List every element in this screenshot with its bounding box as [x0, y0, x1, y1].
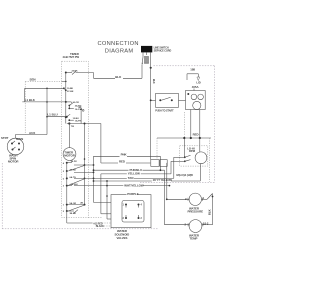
svg-text:MOTOR: MOTOR: [64, 153, 75, 157]
wire: bus to motor contact: [183, 138, 185, 157]
wire: bus right drop: [209, 138, 211, 182]
water temp switch circle: [165, 220, 213, 241]
timer contact PNK: [63, 161, 77, 188]
svg-text:VALVES: VALVES: [117, 236, 128, 240]
timer motor: [63, 124, 76, 161]
right wire stack: WHT/YELLOW: [74, 183, 170, 187]
wire: aux drop: [46, 88, 48, 134]
svg-text:WHT/YELLOW: WHT/YELLOW: [124, 183, 144, 187]
wash motor AUX wire: [16, 131, 48, 139]
svg-text:24-BK: 24-BK: [72, 69, 79, 72]
svg-text:M(LO)4 (HI)5: M(LO)4 (HI)5: [176, 173, 193, 177]
wire L1 BLK: [22, 98, 67, 103]
wire L1 BLU: [46, 112, 68, 117]
timer contact bus: [65, 73, 67, 124]
timer inner vertical: [84, 124, 86, 205]
wire: cord drop to push-to-start: [150, 68, 152, 160]
svg-text:BK: BK: [79, 107, 83, 109]
right wire stack: RED: [101, 159, 167, 199]
timer contact row4: [66, 183, 78, 187]
svg-text:1B-PK: 1B-PK: [71, 161, 78, 163]
cabinet dashed frame right: [214, 66, 216, 183]
svg-text:MAIN: MAIN: [16, 137, 23, 141]
wire: motor bottom return: [199, 164, 201, 181]
bus y138: [157, 133, 211, 139]
svg-text:12-BU: 12-BU: [73, 118, 80, 120]
node at push-to-start tap: [150, 99, 152, 101]
right wire stack: PNK: [94, 153, 161, 171]
wire: pressure sw to frame: [188, 194, 213, 225]
switch blade diagonals: [68, 164, 85, 185]
svg-text:RED: RED: [193, 133, 199, 137]
svg-text:PRESSURE: PRESSURE: [188, 210, 204, 214]
svg-text:SERVICE CORD: SERVICE CORD: [154, 50, 172, 53]
svg-text:MOTOR: MOTOR: [8, 160, 19, 164]
pressure switch circle: [166, 193, 205, 214]
svg-text:405A: 405A: [192, 85, 200, 89]
drive motor dashed box: [176, 146, 207, 177]
fuse 188 / 405A feed: [187, 68, 201, 91]
wire BLK from timer to line switch: [76, 73, 142, 79]
svg-text:PUSH TO START: PUSH TO START: [155, 110, 174, 113]
svg-text:3B-BK: 3B-BK: [70, 213, 77, 215]
svg-text:DIAGRAM: DIAGRAM: [105, 48, 134, 54]
svg-text:RED: RED: [119, 159, 125, 163]
wire: timer bottom exit: [67, 211, 111, 225]
svg-text:TAN: TAN: [128, 176, 134, 180]
svg-text:AUX: AUX: [29, 131, 35, 135]
push to start switch box: [151, 94, 186, 113]
timer lower exits: [74, 164, 94, 173]
cabinet dashed frame left: [1, 163, 3, 229]
wire: switch to BLK line: [141, 65, 143, 79]
node: cord neutral junction: [150, 55, 152, 69]
timer contact row2: [66, 170, 77, 173]
valve feed wires: [94, 174, 112, 219]
svg-text:1A-PK: 1A-PK: [75, 120, 82, 123]
svg-text:188: 188: [190, 68, 195, 72]
cabinet dashed frame bottom right: [140, 181, 215, 183]
svg-text:#8 YT YELLOW: #8 YT YELLOW: [153, 178, 173, 182]
wire upper-left loop: [25, 87, 74, 102]
svg-text:TEMP: TEMP: [190, 237, 198, 241]
svg-text:2C-BK: 2C-BK: [67, 91, 74, 93]
lid switch under connector: [142, 55, 149, 65]
svg-text:LID: LID: [196, 81, 200, 85]
svg-text:2B: 2B: [80, 202, 83, 204]
timer motor junction: [67, 122, 101, 127]
right wire stack: YELLOW: [101, 161, 185, 175]
svg-text:STRT: STRT: [1, 136, 9, 140]
left bus x93.5: [93, 156, 95, 202]
svg-text:BLK: BLK: [152, 79, 154, 84]
wire: y124 drop to PNK: [100, 124, 102, 164]
cabinet dashed frame top: [154, 65, 215, 67]
timer lower bus: [66, 163, 68, 211]
timer dashed box: [62, 61, 89, 217]
right wire stack: TAN: [74, 157, 185, 180]
wire: dashed drop left of relay: [183, 112, 185, 138]
svg-text:L1 BLK: L1 BLK: [25, 98, 36, 102]
svg-text:TM: TM: [71, 126, 74, 128]
timer bottom contacts: [63, 202, 86, 215]
svg-text:18-2: 18-2: [203, 222, 209, 226]
svg-text:CONNECTION: CONNECTION: [98, 41, 139, 47]
timer contact row3: [66, 176, 76, 180]
wire: relay second leg: [199, 110, 201, 139]
svg-text:10-BK: 10-BK: [67, 88, 74, 90]
svg-text:BLK: BLK: [115, 75, 122, 79]
svg-text:BLK: BLK: [207, 209, 211, 215]
start relay box: [186, 91, 206, 110]
timer contacts mid: [65, 102, 84, 124]
line switch / service cord connector block: [141, 46, 171, 55]
svg-text:BLACK: BLACK: [96, 225, 104, 228]
timer contact: BLK feed: [65, 69, 78, 74]
svg-text:L1 BLU: L1 BLU: [47, 112, 57, 116]
svg-text:4AB 7527 PW: 4AB 7527 PW: [63, 55, 80, 59]
wire: bus to motor: [199, 138, 201, 152]
title CONNECTION DIAGRAM: [98, 41, 139, 54]
cabinet dashed frame bottom left: [2, 228, 158, 230]
SEN dashed wire: [25, 77, 66, 134]
svg-text:PURPLE: PURPLE: [127, 192, 139, 196]
wash motor: [1, 136, 24, 164]
svg-text:YELLOW: YELLOW: [128, 172, 140, 176]
right wire stack: BR YT YELLOW: [94, 178, 201, 182]
svg-text:SEN: SEN: [30, 77, 36, 81]
right wire stack: PUR/BLU: [93, 168, 165, 225]
label BLACK wire: [96, 225, 111, 228]
svg-text:PNK: PNK: [121, 153, 128, 157]
svg-text:RPM: RPM: [189, 149, 196, 153]
wire: bus left dashed drop to connector: [156, 138, 158, 160]
water valve box: [111, 192, 151, 240]
wire: relay to bus y138: [190, 110, 192, 139]
